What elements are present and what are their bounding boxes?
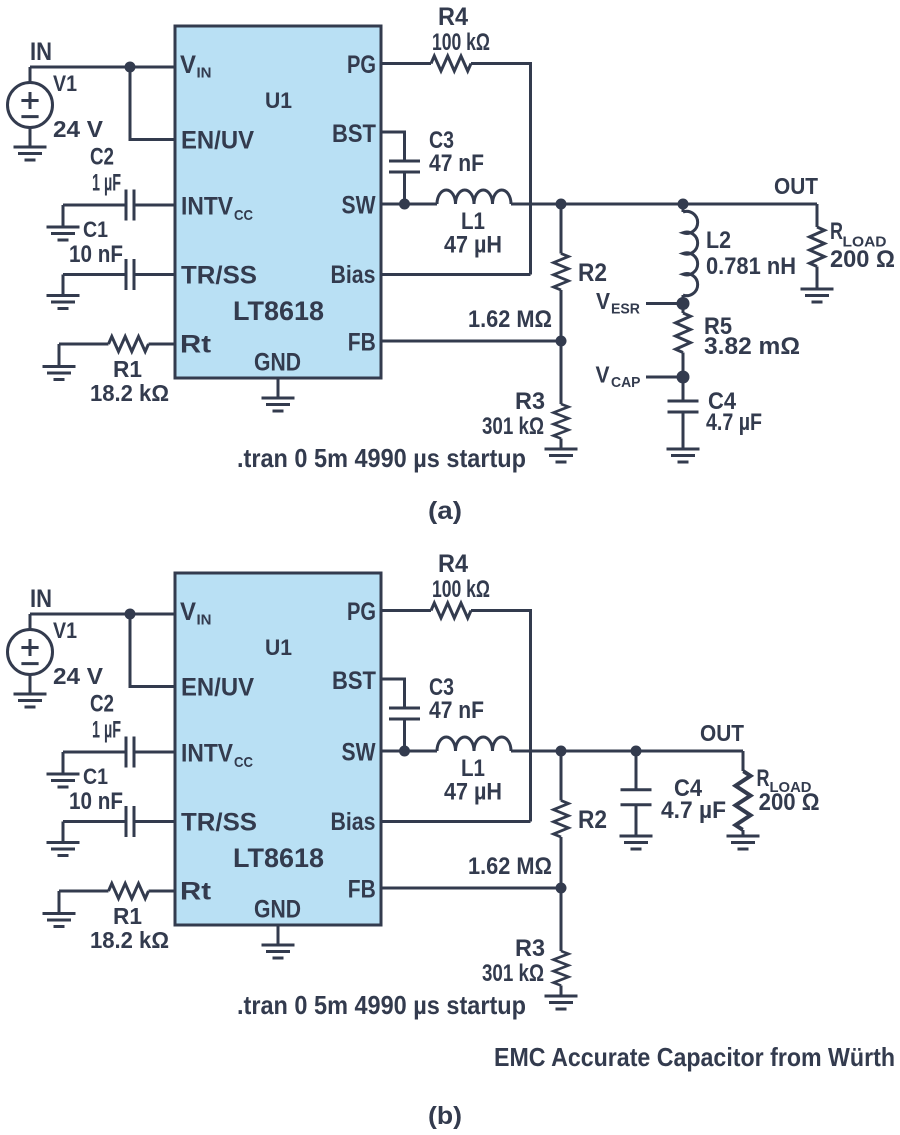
wire R2 top lead (560, 204, 563, 254)
inductor L2 (683, 211, 698, 295)
wire C2 ground leg (62, 752, 65, 774)
svg-text:24 V: 24 V (53, 116, 103, 142)
wire R5 bottom lead (682, 353, 685, 378)
capacitor C3 (389, 708, 420, 719)
svg-text:301 kΩ: 301 kΩ (482, 960, 544, 987)
ground below RLOAD (b) (727, 836, 760, 849)
wire FB pin (381, 340, 561, 343)
wire L2 to VESR node (682, 295, 685, 304)
svg-text:R1: R1 (113, 903, 142, 929)
svg-text:CAP: CAP (611, 375, 641, 391)
wire C2 left lead (63, 751, 126, 754)
wire L2 top lead (682, 204, 685, 212)
svg-text:1.62 MΩ: 1.62 MΩ (468, 853, 552, 880)
wire PG pin to R4 (381, 609, 431, 612)
ground below C4 (b) (620, 836, 653, 849)
svg-text:EMC Accurate Capacitor from Wü: EMC Accurate Capacitor from Würth (494, 1042, 895, 1072)
svg-text:10 nF: 10 nF (69, 788, 123, 815)
op-amp U1 IC LT8618 body (175, 573, 381, 925)
svg-text:C1: C1 (83, 217, 108, 242)
resistor R2 (554, 254, 569, 291)
wire GND pin stem (277, 378, 280, 398)
svg-text:EN/UV: EN/UV (181, 127, 254, 155)
ground below C4 (a) (667, 449, 700, 462)
svg-text:Bias: Bias (331, 808, 376, 836)
capacitor C2 (126, 190, 134, 221)
svg-text:200 Ω: 200 Ω (830, 246, 895, 273)
wire C3 bottom to SW (403, 719, 406, 751)
svg-text:4.7 µF: 4.7 µF (706, 409, 762, 436)
wire BST pin to C3 (381, 679, 405, 708)
svg-text:R4: R4 (438, 550, 468, 578)
wire R1 to Rt pin (149, 890, 176, 893)
wire R4 right down to Bias (471, 611, 531, 822)
svg-text:18.2 kΩ: 18.2 kΩ (90, 380, 169, 406)
svg-text:R2: R2 (578, 806, 607, 834)
svg-text:R3: R3 (515, 935, 545, 962)
ground below C2 (47, 774, 80, 787)
svg-text:OUT: OUT (774, 173, 818, 199)
svg-text:U1: U1 (265, 635, 292, 660)
ground below C1 (47, 296, 80, 309)
svg-text:FB: FB (348, 329, 376, 357)
resistor R1 (109, 337, 149, 352)
svg-text:47 µH: 47 µH (444, 779, 502, 806)
wire V1 top lead (29, 614, 32, 630)
wire SW rail to output (b) (511, 750, 743, 753)
svg-text:U1: U1 (265, 88, 292, 113)
svg-text:(b): (b) (428, 1102, 462, 1130)
wire RLOAD ground leg (b) (742, 830, 745, 836)
svg-text:IN: IN (30, 38, 52, 66)
svg-text:SW: SW (342, 739, 376, 767)
wire VESR label dash (646, 302, 677, 305)
wire R3 top lead (560, 341, 563, 404)
svg-text:R3: R3 (515, 388, 545, 415)
inductor L1 (437, 190, 511, 204)
resistor R3 (554, 404, 569, 439)
svg-text:C2: C2 (90, 144, 114, 171)
svg-text:301 kΩ: 301 kΩ (482, 413, 544, 440)
wire SW pin (381, 203, 437, 206)
wire C4 ground leg (a) (682, 412, 685, 449)
svg-text:V: V (596, 288, 611, 314)
svg-text:BST: BST (332, 120, 376, 148)
ground below V1 (14, 147, 47, 160)
resistor R4 (431, 603, 471, 618)
svg-text:CC: CC (234, 754, 253, 771)
svg-text:IN: IN (197, 612, 212, 629)
ground below R1 (43, 914, 76, 927)
svg-text:V: V (596, 362, 611, 388)
svg-text:Bias: Bias (331, 261, 376, 289)
wire IN to VIN pin (30, 66, 175, 69)
svg-text:1 µF: 1 µF (92, 717, 121, 744)
ground below V1 (14, 694, 47, 707)
svg-text:(a): (a) (428, 497, 462, 525)
wire V1 bottom lead (29, 128, 32, 148)
resistor RLOAD (b) (736, 771, 751, 830)
wire R2 bottom lead (b) (560, 837, 563, 888)
wire SW pin (381, 750, 437, 753)
ground below C2 (47, 227, 80, 240)
capacitor C4 (b) (621, 790, 652, 805)
wire V1 bottom lead (29, 675, 32, 695)
svg-text:.tran 0 5m 4990 µs startup: .tran 0 5m 4990 µs startup (237, 443, 526, 473)
capacitor C1 (126, 806, 134, 837)
svg-text:ESR: ESR (611, 302, 641, 318)
wire C4 top lead (b) (635, 751, 638, 790)
wire R5 top lead (682, 304, 685, 314)
node junction dot C4 top (b) (631, 746, 642, 757)
ground below R1 (43, 367, 76, 380)
wire SW rail to output (a) (511, 203, 817, 206)
wire junction to EN/UV (130, 614, 175, 687)
wire Rt pin lead left (59, 343, 109, 346)
wire down to RLOAD (a) (816, 204, 819, 227)
svg-text:V: V (180, 598, 196, 626)
svg-text:1 µF: 1 µF (92, 170, 121, 197)
wire junction to EN/UV (130, 67, 175, 140)
svg-text:R1: R1 (113, 356, 142, 382)
inductor L1 (437, 737, 511, 751)
svg-text:100 kΩ: 100 kΩ (432, 29, 490, 56)
wire C1 right lead to TR/SS (134, 273, 175, 276)
wire C1 ground leg (62, 822, 65, 843)
voltage source V1 (8, 83, 53, 128)
svg-text:47 nF: 47 nF (429, 697, 484, 724)
svg-text:TR/SS: TR/SS (181, 262, 257, 290)
svg-text:Rt: Rt (180, 331, 212, 359)
node junction dot R2 top (b) (556, 746, 567, 757)
node junction dot VIN (125, 609, 136, 620)
wire C2 right lead to INTVcc (134, 204, 175, 207)
resistor R4 (431, 56, 471, 71)
svg-text:10 nF: 10 nF (69, 241, 123, 268)
svg-text:0.781 nH: 0.781 nH (706, 253, 796, 280)
svg-text:GND: GND (254, 349, 301, 377)
wire C4 ground leg (b) (635, 805, 638, 836)
op-amp U1 IC LT8618 body (175, 26, 381, 378)
svg-text:47 nF: 47 nF (429, 150, 484, 177)
wire C2 ground leg (62, 205, 65, 227)
svg-text:24 V: 24 V (53, 663, 103, 689)
svg-text:V: V (180, 51, 196, 79)
resistor R3 (b) (554, 951, 569, 986)
ground below GND pin (262, 945, 295, 958)
ground below R3 (545, 449, 578, 462)
wire IN to VIN pin (30, 613, 175, 616)
svg-text:V1: V1 (53, 71, 77, 96)
svg-text:LT8618: LT8618 (233, 843, 324, 873)
wire Rt pin lead left (59, 890, 109, 893)
wire RLOAD ground leg (a) (816, 267, 819, 290)
svg-text:GND: GND (254, 896, 301, 924)
wire PG pin to R4 (381, 62, 431, 65)
wire C3 bottom to SW (403, 172, 406, 204)
wire R3 ground leg (560, 439, 563, 450)
node junction dot R2 top (556, 199, 567, 210)
wire R4 right down to Bias (471, 64, 531, 275)
svg-text:Rt: Rt (180, 878, 212, 906)
svg-text:SW: SW (342, 192, 376, 220)
svg-text:EN/UV: EN/UV (181, 674, 254, 702)
wire C2 right lead to INTVcc (134, 751, 175, 754)
svg-text:4.7 µF: 4.7 µF (661, 797, 726, 824)
ground below RLOAD (a) (801, 289, 834, 302)
ground below R3 (b) (545, 996, 578, 1009)
wire R3 ground leg (b) (560, 986, 563, 997)
svg-text:V1: V1 (53, 618, 77, 643)
svg-text:C1: C1 (83, 764, 108, 789)
svg-text:47 µH: 47 µH (444, 232, 502, 259)
wire V1 top lead (29, 67, 32, 83)
node junction dot VIN (125, 62, 136, 73)
capacitor C3 (389, 161, 420, 172)
wire R1 ground leg (58, 344, 61, 367)
wire R2 top lead (b) (560, 751, 563, 801)
svg-text:R: R (757, 765, 770, 792)
svg-text:PG: PG (347, 51, 376, 79)
wire C4 top lead (a) (682, 377, 685, 401)
svg-text:BST: BST (332, 667, 376, 695)
svg-text:3.82 mΩ: 3.82 mΩ (704, 333, 800, 360)
svg-text:IN: IN (197, 65, 212, 82)
capacitor C1 (126, 259, 134, 290)
svg-text:CC: CC (234, 207, 253, 224)
svg-text:FB: FB (348, 876, 376, 904)
svg-text:R: R (830, 218, 843, 245)
wire down to RLOAD (b) (742, 751, 745, 771)
capacitor C4 (a) (668, 401, 699, 412)
svg-text:IN: IN (30, 585, 52, 613)
svg-text:.tran 0 5m 4990 µs startup: .tran 0 5m 4990 µs startup (237, 990, 526, 1020)
svg-text:INTV: INTV (181, 193, 233, 221)
wire C1 right lead to TR/SS (134, 820, 175, 823)
voltage source V1 (8, 630, 53, 675)
ground below GND pin (262, 398, 295, 411)
svg-text:OUT: OUT (700, 720, 744, 746)
node junction dot FB (b) (556, 883, 567, 894)
node junction dot FB (556, 336, 567, 347)
node VESR dot (677, 297, 690, 310)
resistor RLOAD (a) (810, 227, 825, 267)
wire VCAP label dash (646, 376, 677, 379)
capacitor C2 (126, 737, 134, 768)
resistor R2 (b) (554, 801, 569, 838)
wire GND pin stem (277, 925, 280, 945)
node junction dot SW/C3 (399, 199, 410, 210)
node VCAP dot (677, 371, 690, 384)
wire R3 top lead (b) (560, 888, 563, 951)
svg-text:R4: R4 (438, 3, 468, 31)
wire R1 to Rt pin (149, 343, 176, 346)
wire R1 ground leg (58, 891, 61, 914)
resistor R5 (676, 313, 691, 353)
svg-text:C2: C2 (90, 691, 114, 718)
node junction dot L2 top (678, 199, 689, 210)
svg-text:TR/SS: TR/SS (181, 809, 257, 837)
wire R2 bottom lead (560, 290, 563, 341)
svg-text:1.62 MΩ: 1.62 MΩ (468, 306, 552, 333)
wire Bias pin (381, 820, 531, 823)
svg-text:100 kΩ: 100 kΩ (432, 576, 490, 603)
svg-text:18.2 kΩ: 18.2 kΩ (90, 927, 169, 953)
wire C1 left lead (63, 273, 126, 276)
svg-text:L2: L2 (706, 227, 731, 254)
svg-text:INTV: INTV (181, 740, 233, 768)
wire FB pin (b) (381, 887, 561, 890)
svg-text:LT8618: LT8618 (233, 296, 324, 326)
resistor R1 (109, 884, 149, 899)
svg-text:R2: R2 (578, 259, 607, 287)
svg-text:200 Ω: 200 Ω (759, 789, 820, 816)
node junction dot SW/C3 (399, 746, 410, 757)
ground below C1 (47, 843, 80, 856)
wire C1 ground leg (62, 275, 65, 296)
svg-text:PG: PG (347, 598, 376, 626)
wire Bias pin (381, 273, 531, 276)
wire C2 left lead (63, 204, 126, 207)
wire C1 left lead (63, 820, 126, 823)
wire BST pin to C3 (381, 132, 405, 161)
